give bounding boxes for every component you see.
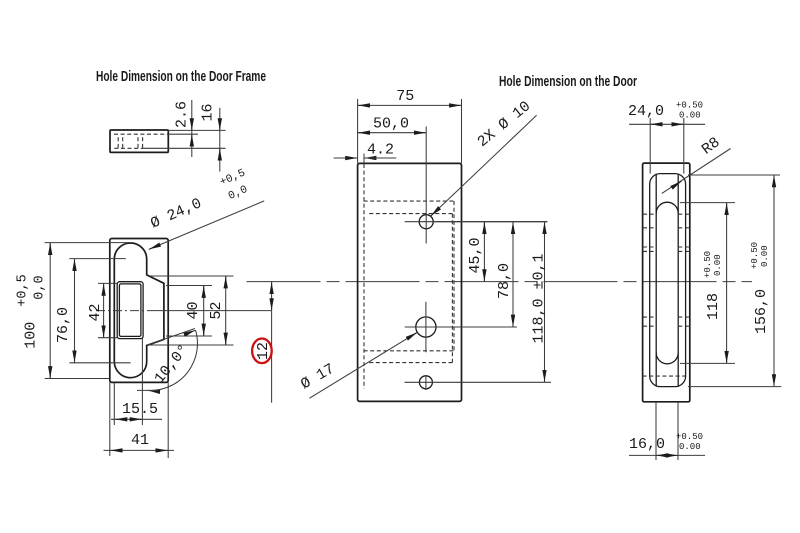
svg-text:45,0: 45,0	[467, 237, 484, 273]
dimension 100 line	[49, 243, 51, 379]
svg-text:42: 42	[87, 303, 104, 321]
extension line slot	[168, 133, 198, 135]
extension line 42 bottom	[98, 337, 117, 339]
svg-text:16,0: 16,0	[629, 436, 665, 453]
svg-text:Hole Dimension on the Door Fra: Hole Dimension on the Door Frame	[96, 69, 266, 85]
extension line 40 top	[166, 285, 212, 287]
hidden box outer top	[364, 200, 454, 202]
dimension 16 line	[219, 108, 221, 172]
dimension 16,0 line	[629, 454, 705, 456]
door plate rect	[358, 163, 462, 401]
dimension 12 line	[271, 282, 273, 403]
dimension 2.6 arrows	[191, 121, 193, 130]
dimension 45,0 line	[483, 222, 485, 282]
extension 118 top	[680, 202, 735, 204]
angle reference line	[137, 389, 158, 391]
svg-text:15.5: 15.5	[122, 401, 158, 418]
hidden line slot top	[114, 133, 168, 135]
hidden lines strips top	[643, 213, 690, 215]
svg-text:24,0: 24,0	[628, 103, 664, 120]
bottom hole crosshair	[405, 381, 552, 383]
svg-text:156,0: 156,0	[753, 289, 770, 334]
svg-text:0.00: 0.00	[679, 442, 701, 452]
dimension 50,0 line	[358, 132, 427, 134]
dimension 118 line	[726, 203, 728, 364]
bottom hole	[419, 376, 432, 389]
extension 24 right	[683, 118, 685, 174]
svg-text:50,0: 50,0	[373, 116, 409, 133]
hidden line bottom full	[643, 375, 690, 377]
svg-text:+0.50: +0.50	[676, 432, 703, 442]
hidden box inner bottom	[369, 362, 452, 364]
latch hole outer rect	[117, 282, 143, 339]
leader R8	[662, 149, 731, 194]
dimension 78,0 line	[512, 222, 514, 327]
left view cutout	[114, 243, 164, 378]
svg-text:76,0: 76,0	[55, 307, 72, 343]
svg-text:0,0: 0,0	[33, 275, 48, 299]
extension line 75 right	[461, 99, 463, 163]
svg-text:78,0: 78,0	[496, 263, 513, 299]
dimension 118,0 line	[544, 222, 546, 383]
extension line 76 top	[69, 258, 125, 260]
extension 16 left	[655, 402, 657, 460]
extension line 100 bottom	[45, 378, 110, 380]
dimension 41 line	[104, 449, 175, 451]
slot channel left	[655, 174, 657, 387]
top hole	[419, 215, 433, 229]
slot obround	[656, 202, 678, 364]
svg-text:118: 118	[705, 293, 722, 320]
dimension 12 extension	[152, 310, 272, 312]
extension 156 bottom	[688, 386, 781, 388]
extension 118 bottom	[680, 362, 735, 364]
svg-text:0.00: 0.00	[713, 254, 723, 276]
dimension 16 arrows	[219, 121, 221, 130]
left view outer plate	[110, 239, 168, 383]
svg-text:118,0 ±0,1: 118,0 ±0,1	[531, 253, 548, 343]
svg-text:75: 75	[396, 88, 414, 105]
svg-text:41: 41	[131, 432, 149, 449]
lip hidden edge	[363, 164, 365, 389]
svg-text:100: 100	[23, 322, 40, 349]
dimension 42 line	[103, 283, 105, 337]
balloon circle red	[252, 339, 272, 364]
extension line 75 left	[357, 99, 359, 163]
leader diameter 24	[149, 201, 264, 250]
dimension 75 line	[358, 104, 462, 106]
extension line top	[168, 129, 225, 131]
door edge rect	[643, 163, 690, 402]
svg-text:+0.50: +0.50	[703, 251, 713, 278]
svg-text:+0.50: +0.50	[750, 242, 760, 269]
slot channel right	[677, 174, 679, 387]
dimension 52 line	[225, 276, 227, 345]
extension line 52 bottom	[147, 344, 234, 346]
svg-text:2.6: 2.6	[174, 101, 191, 128]
svg-text:Hole Dimension on the Door: Hole Dimension on the Door	[499, 74, 637, 90]
extension 16 right	[677, 402, 679, 460]
hidden box outer right	[453, 201, 455, 351]
middle hole crosshair	[405, 326, 517, 328]
dimension 2.6 line	[191, 100, 193, 157]
strike box rounded	[650, 174, 686, 387]
middle hole	[416, 317, 436, 337]
extension line 40 bottom	[166, 335, 212, 337]
extension line 76 bottom	[69, 362, 130, 364]
hidden box outer bottom	[364, 350, 454, 352]
extension line 42 top	[98, 282, 117, 284]
dimension 4.2	[334, 157, 358, 159]
dimension 15.5 line	[111, 418, 162, 420]
latch hole centerline	[96, 310, 152, 312]
svg-text:0.00: 0.00	[760, 245, 770, 267]
main horizontal centerline	[247, 281, 753, 283]
hidden line slot bottom	[114, 147, 143, 149]
label diameter 24 with tolerance	[145, 167, 254, 236]
label 100 with tolerance	[16, 274, 48, 348]
dimension 24,0 line	[629, 123, 705, 125]
hidden box inner right	[451, 214, 453, 363]
extension 156 top	[688, 174, 780, 176]
svg-text:+0,5: +0,5	[16, 274, 31, 306]
svg-text:12: 12	[255, 342, 272, 360]
latch hole inner rect	[119, 284, 140, 337]
lip edge extension	[363, 154, 365, 165]
hidden lines strips bottom	[643, 316, 690, 318]
svg-text:4.2: 4.2	[367, 142, 394, 159]
svg-text:0.00: 0.00	[679, 111, 701, 121]
extension 45 78 118 top	[434, 221, 548, 223]
leader dia 17	[310, 332, 418, 398]
svg-text:+0.50: +0.50	[676, 101, 703, 111]
extension line 52 top	[150, 275, 234, 277]
extension line 100 top	[45, 242, 132, 244]
angle chamfer extension line	[147, 329, 195, 346]
side view body	[110, 130, 168, 152]
leader 2x dia 10	[431, 115, 537, 216]
dimension 156,0 line	[773, 175, 775, 387]
extension 24 left	[649, 118, 651, 174]
top hole crosshair	[405, 221, 547, 223]
hidden latch pocket right	[138, 137, 143, 149]
angle arc	[148, 330, 198, 390]
hidden box inner top	[369, 213, 452, 215]
svg-text:16: 16	[200, 103, 217, 121]
extension lines below	[109, 382, 111, 456]
hidden latch pocket left	[118, 137, 123, 149]
dimension 40 line	[203, 286, 205, 337]
extension line 16 bottom	[144, 147, 226, 149]
dimension 76 line	[74, 259, 76, 363]
